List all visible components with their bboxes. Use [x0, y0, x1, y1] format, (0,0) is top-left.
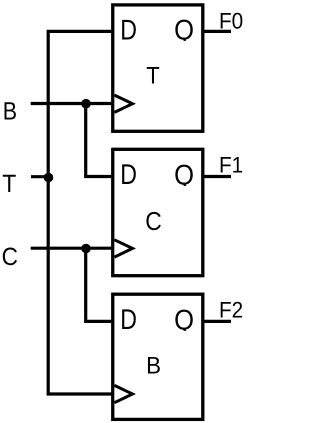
svg-text:D: D: [120, 14, 137, 46]
wire net C: from C-wire junction down to FF3 D input: [86, 248, 114, 321]
svg-text:T: T: [146, 62, 160, 89]
flip-flop T clock triangle: [114, 95, 132, 112]
svg-text:D: D: [120, 304, 137, 336]
flip-flop C clock triangle: [114, 240, 132, 257]
flip-flop B clock triangle: [114, 385, 132, 402]
svg-text:B: B: [3, 97, 17, 125]
svg-text:F1: F1: [219, 152, 243, 177]
wire B input to FF1 clock: [31, 102, 114, 105]
svg-text:F0: F0: [219, 9, 243, 34]
svg-text:F2: F2: [219, 297, 243, 322]
wire net T: from FF1 D input, down the left bus, to FF3 clock: [48, 31, 114, 394]
svg-text:T: T: [2, 170, 16, 198]
svg-text:C: C: [145, 206, 162, 236]
svg-text:C: C: [2, 243, 18, 271]
wire net B: from B-wire junction down to FF2 D input: [86, 104, 114, 177]
junction dot on C wire: [81, 244, 91, 254]
wire FF3 Q output to F2: [201, 320, 231, 323]
wire FF1 Q output to F0: [201, 30, 231, 33]
wire C input to FF2 clock: [31, 247, 114, 250]
flip-flop T body: [113, 5, 203, 131]
wire T input stub to bus junction: [31, 175, 52, 178]
flip-flop B body: [113, 294, 203, 419]
wire FF2 Q output to F1: [201, 175, 231, 178]
svg-text:D: D: [120, 159, 137, 191]
junction dot on B wire: [81, 99, 91, 109]
flip-flop C body: [113, 149, 203, 275]
svg-text:B: B: [146, 353, 161, 380]
junction dot on T wire: [44, 173, 54, 183]
